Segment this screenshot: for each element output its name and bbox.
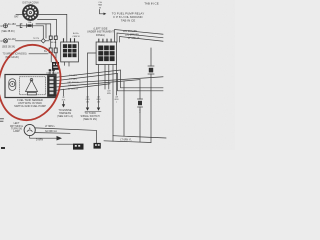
bottom left corner mark xyxy=(1,147,5,149)
wire H3 xyxy=(120,37,164,43)
lamp L1 xyxy=(24,124,35,135)
wire row1 drop to diamond xyxy=(42,26,44,39)
relay K2 xyxy=(96,39,116,64)
connector block B2 xyxy=(73,144,84,150)
wire splice tee xyxy=(63,89,65,96)
connector squares A4 xyxy=(49,36,57,40)
fuse F1 xyxy=(27,24,33,28)
wire C1 drops to B1 xyxy=(50,53,52,62)
wire long vertical to bottom xyxy=(112,65,114,142)
connector C1 pins xyxy=(49,48,57,53)
wire arrow to turn signal 1 xyxy=(86,108,89,111)
wire arrow to turn signal 2 xyxy=(97,108,100,111)
crank relay block B1 xyxy=(52,62,59,70)
connector block B3 xyxy=(94,143,101,149)
bracket under turn arrows xyxy=(85,111,101,113)
connector pins above box xyxy=(49,69,55,74)
red highlight ellipse xyxy=(0,38,68,126)
relay K1 xyxy=(61,39,79,66)
wire tank pin A xyxy=(56,70,163,88)
node gauge symbol G1 xyxy=(3,24,7,28)
top middle callout wire xyxy=(100,10,104,14)
node gauge symbol G2 xyxy=(3,39,7,43)
distributor D1 xyxy=(23,5,39,21)
wire row1 xyxy=(17,25,44,27)
wire stub xyxy=(45,24,47,38)
wire H1 top right xyxy=(115,30,164,43)
wire diamond to squares xyxy=(46,40,50,42)
bracket symbol xyxy=(20,24,22,28)
wire K2 bottom pins short xyxy=(104,65,106,89)
wire xyxy=(57,143,73,145)
sender resistor triangle xyxy=(26,80,38,92)
connector strip xyxy=(48,76,57,97)
wire row2 xyxy=(16,40,42,42)
splice arrow S1 to chassis harness xyxy=(62,102,65,108)
wire tank pin B xyxy=(56,73,163,90)
node diamond splice xyxy=(41,39,45,43)
wire lamp lead 1 xyxy=(35,128,96,143)
wire dist to connector sq B xyxy=(38,20,57,37)
wire elbow down x124 xyxy=(123,82,125,136)
wire vertical with fuse F2 xyxy=(150,48,152,66)
wire xyxy=(139,107,141,142)
wire dist to connector sq A xyxy=(36,24,51,36)
wire xyxy=(55,40,57,49)
wire stub xyxy=(116,65,118,95)
wire tank pin E xyxy=(56,84,110,91)
wire xyxy=(108,65,110,89)
wire dist to relay K1 xyxy=(38,14,67,42)
wire lamp ground lead xyxy=(30,136,57,139)
fuse F2 xyxy=(148,66,154,74)
wire bottom horizontal 2 xyxy=(104,141,151,143)
left edge tick marks xyxy=(0,119,4,121)
wire tank pin C xyxy=(56,77,163,84)
sender dashed enclosure xyxy=(20,77,46,95)
wire bottom horizontal 1 xyxy=(113,136,166,138)
wire BAT stub xyxy=(16,14,23,16)
wire H2 xyxy=(117,33,163,42)
pump motor M xyxy=(9,79,16,91)
wire xyxy=(150,74,152,142)
wire tank pin D xyxy=(56,80,140,87)
wire vertical with fuse F3 xyxy=(139,80,141,99)
scan noise overlay xyxy=(0,0,1,1)
wire sq drops xyxy=(50,40,52,49)
wire row3 xyxy=(29,53,48,55)
fuel tank unit box xyxy=(5,75,56,98)
wire lamp lead 2 xyxy=(35,132,70,135)
wire K2 bottom pin down xyxy=(98,65,100,107)
fuse F3 xyxy=(138,99,143,107)
ground arrow xyxy=(57,136,63,141)
wire K2 left pin elbow down xyxy=(88,53,97,107)
